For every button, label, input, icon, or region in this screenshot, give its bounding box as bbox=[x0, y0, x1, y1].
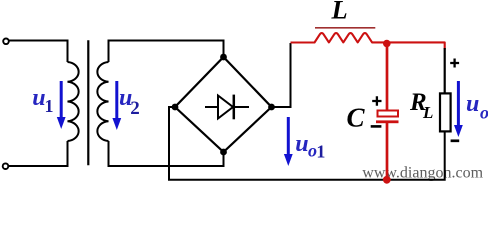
diode D lead bbox=[205, 106, 249, 108]
svg-text:www.diangon.com: www.diangon.com bbox=[362, 164, 483, 181]
diode D triangle bbox=[218, 96, 233, 119]
wire bridge left corner to bottom rail bbox=[169, 107, 445, 180]
svg-text:u: u bbox=[295, 131, 308, 157]
wire secondary bottom to bridge bottom corner bbox=[109, 141, 224, 166]
output plus sign bbox=[450, 59, 459, 68]
svg-text:L: L bbox=[422, 103, 433, 122]
arrow u1 bbox=[60, 81, 63, 118]
capacitor C bottom plate bbox=[376, 120, 399, 123]
transformer secondary winding bbox=[97, 62, 108, 141]
svg-text:1: 1 bbox=[316, 142, 325, 162]
capacitor plus sign bbox=[372, 96, 381, 106]
node right corner bbox=[268, 104, 275, 111]
bridge rectifier diamond bbox=[175, 57, 272, 152]
output minus sign bbox=[451, 139, 460, 142]
svg-text:2: 2 bbox=[130, 98, 140, 119]
inductor L winding bbox=[291, 33, 445, 49]
resistor RL body bbox=[440, 93, 451, 131]
arrow uo1 bbox=[287, 117, 290, 155]
wire bridge right corner up bbox=[272, 43, 291, 107]
wire capacitor bottom bbox=[386, 123, 389, 180]
svg-text:C: C bbox=[347, 103, 366, 133]
wire above resistor bbox=[444, 48, 446, 93]
capacitor C top plate bbox=[378, 111, 399, 117]
node junction L-C bbox=[383, 40, 391, 48]
arrow u2 bbox=[115, 81, 118, 119]
svg-text:o: o bbox=[480, 102, 488, 122]
node left corner bbox=[172, 104, 179, 111]
L underline bbox=[315, 27, 375, 29]
transformer core bbox=[87, 40, 89, 165]
wire primary top bbox=[9, 41, 68, 63]
diode D cathode bar bbox=[233, 95, 236, 120]
svg-text:L: L bbox=[331, 0, 348, 25]
wire primary bottom bbox=[9, 141, 68, 166]
wire capacitor top bbox=[386, 43, 389, 111]
svg-text:1: 1 bbox=[45, 96, 54, 116]
arrow uo bbox=[457, 81, 460, 126]
terminal bottom-left bbox=[3, 163, 9, 169]
node top corner bbox=[220, 54, 227, 61]
node capacitor-rail junction bbox=[383, 176, 391, 184]
node bottom corner bbox=[220, 149, 227, 156]
wire secondary top to bridge bbox=[109, 41, 224, 63]
transformer primary winding bbox=[68, 62, 79, 141]
svg-text:u: u bbox=[466, 91, 479, 117]
capacitor minus sign bbox=[371, 125, 382, 128]
terminal top-left bbox=[3, 39, 9, 45]
